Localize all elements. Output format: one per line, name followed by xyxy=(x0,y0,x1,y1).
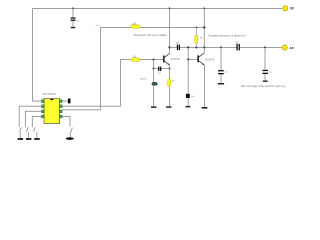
ground C7 xyxy=(263,81,268,82)
capacitor C6 shunt xyxy=(218,47,228,83)
capacitor C1 xyxy=(71,17,76,21)
ground C1 xyxy=(71,27,75,28)
ground S2 xyxy=(26,138,32,140)
node T2 collector junction xyxy=(203,46,205,48)
wire y68 link xyxy=(154,68,170,70)
wire bias line y27 left segment xyxy=(100,26,131,28)
ground T2 emitter xyxy=(202,107,208,109)
ground blob pinR4 xyxy=(66,137,74,140)
wire IC pinL2 xyxy=(19,106,41,127)
wire C1 riser xyxy=(72,8,74,27)
wire y47 mid segment xyxy=(180,46,237,48)
wire T2 collector riser xyxy=(203,8,205,52)
node rail-T2 junction xyxy=(203,7,205,9)
IC U1 PIC12F675 xyxy=(42,93,59,124)
pin pads right xyxy=(59,100,62,118)
wire y47 right segment xyxy=(240,46,282,48)
wire T2 base drop xyxy=(187,47,189,106)
ground base drop xyxy=(151,106,156,108)
switch S1 xyxy=(20,127,22,138)
wire y47 left segment xyxy=(170,46,177,48)
wire IC pinR1 stub xyxy=(62,100,68,102)
wire left drop to IC pin1 xyxy=(33,8,42,101)
node rail-T1 junction xyxy=(169,7,171,9)
crystal X1 xyxy=(158,67,161,75)
svg-text:Elko 10u gegen Folie tauschen: Elko 10u gegen Folie tauschen geht gut xyxy=(241,85,285,88)
terminal A/F output xyxy=(281,44,294,51)
svg-text:BC547B: BC547B xyxy=(206,59,215,61)
wire base drop x153 xyxy=(153,60,155,107)
svg-text:PIC 12F675: PIC 12F675 xyxy=(42,93,56,96)
node C6 tap xyxy=(220,46,222,48)
svg-text:A/F: A/F xyxy=(289,46,294,50)
node R3 bottom xyxy=(195,46,197,48)
pin pads left xyxy=(42,100,45,118)
terminal 9V xyxy=(282,5,295,12)
node base tap T2 xyxy=(187,46,189,48)
resistor R3 1k xyxy=(195,27,203,47)
capacitor C5 10u series xyxy=(235,42,240,50)
wire bias line y27 right segment xyxy=(140,26,204,28)
capacitor C7 shunt xyxy=(262,47,272,80)
node y68 left junction xyxy=(152,67,154,69)
wire IC pinL3 xyxy=(25,111,41,127)
component tick on pinR1 xyxy=(68,99,71,104)
capacitor C4 xyxy=(186,94,195,98)
svg-text:Koppelkondensator vor Basis ne: Koppelkondensator vor Basis neu xyxy=(208,34,246,37)
node bias-R3 junction xyxy=(196,27,198,29)
ground S1 xyxy=(18,138,24,140)
ground T1 emitter xyxy=(166,106,171,108)
ground C6 xyxy=(218,83,224,85)
switch S2 xyxy=(26,127,28,138)
wire T2 base link xyxy=(188,58,197,60)
resistor R2 10k xyxy=(131,56,140,61)
transistor Q1 BC547B xyxy=(163,53,180,65)
wire T1 collector riser xyxy=(169,8,171,53)
svg-text:Widerstand 10k kann entfallen: Widerstand 10k kann entfallen xyxy=(133,34,167,37)
wire IC pinR4 to ground xyxy=(62,116,72,137)
node bias end junction xyxy=(203,26,205,28)
diode D1 xyxy=(140,78,157,86)
resistor R4 emitter xyxy=(168,79,176,86)
wire T1 emitter drop xyxy=(169,65,171,106)
ground T2 base network xyxy=(186,106,191,108)
node T2 base junction xyxy=(187,58,189,60)
ground S3 xyxy=(34,138,40,140)
svg-text:BAT43: BAT43 xyxy=(140,78,147,81)
wire T2 emitter drop xyxy=(203,65,205,107)
node collector y47 junction xyxy=(168,46,170,48)
wire IC pinR2 to riser x120 xyxy=(62,60,131,107)
node y68 right junction xyxy=(168,67,170,69)
transistor Q2 BC547B xyxy=(197,53,214,66)
node rail-C1 junction xyxy=(72,7,74,9)
resistor R1 10k xyxy=(131,23,140,28)
wire riser x100 to IC pin xyxy=(62,27,100,109)
svg-text:BC547B: BC547B xyxy=(171,59,180,61)
wire R2 to T1 base xyxy=(140,59,163,61)
node base junction xyxy=(152,59,154,61)
node C7 tap xyxy=(264,46,266,48)
switch S3 xyxy=(33,127,36,138)
wire IC pinL4 xyxy=(32,116,41,127)
wire supply rail xyxy=(33,7,282,9)
capacitor C2 10n xyxy=(175,43,180,50)
